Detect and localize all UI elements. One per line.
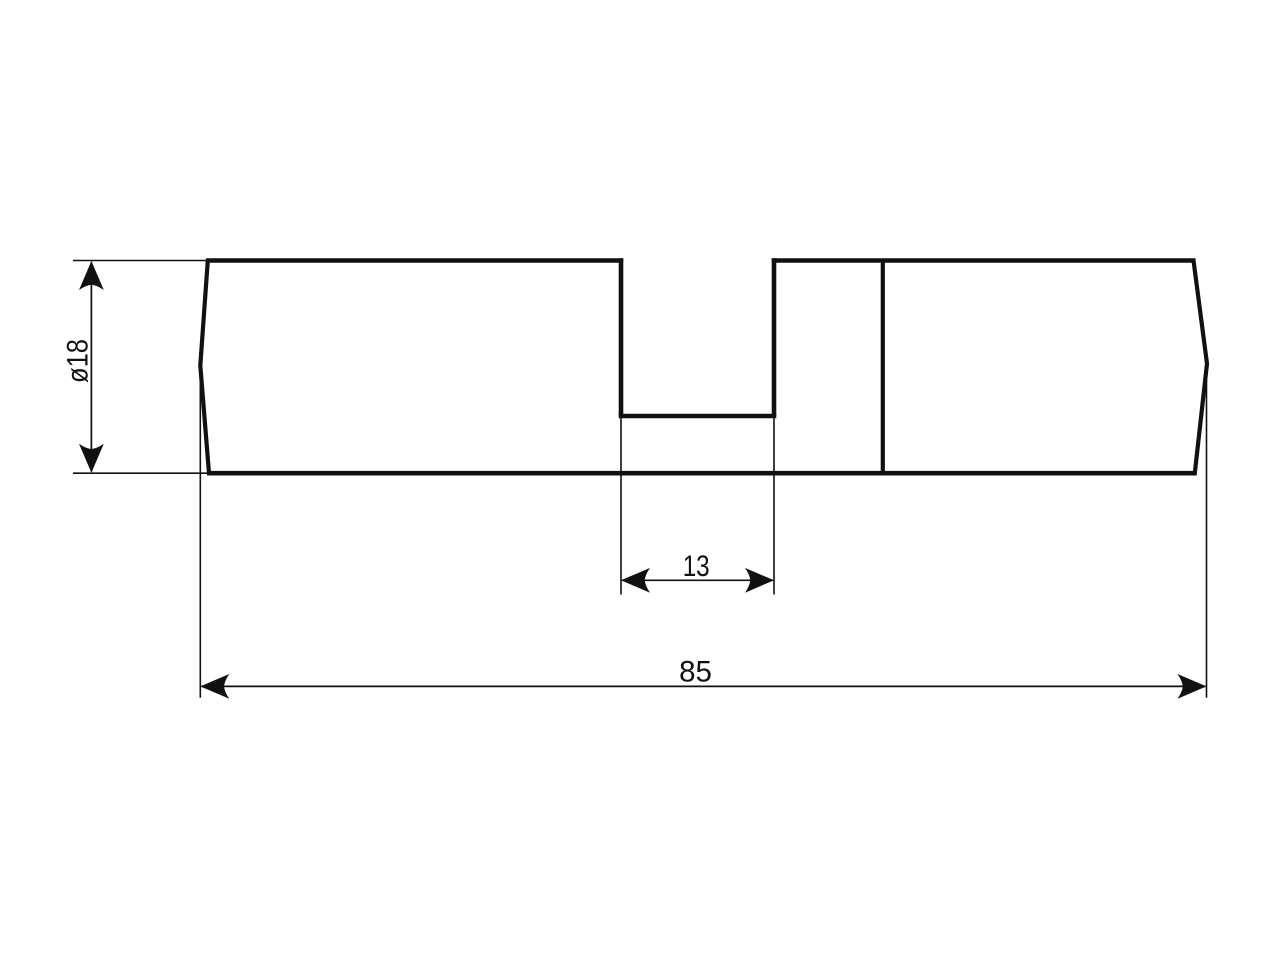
dim85 left extension line [199,366,201,698]
body bottom edge [207,471,1197,476]
part divider line [881,261,885,474]
dim13 left extension line [620,416,622,595]
body top edge right segment [772,258,1196,263]
dia18 bottom extension line [73,472,207,474]
dim85 left arrowhead [200,674,229,699]
dia18 bottom arrowhead [79,444,104,473]
dim85 dimension line [201,685,1205,687]
dim85 right arrowhead [1178,674,1207,699]
dim13 dimension line [622,579,773,581]
dim13 right arrowhead [745,568,774,593]
notch left wall [619,258,624,416]
dim13 right extension line [773,416,775,595]
notch bottom [619,414,777,419]
dia18 top extension line [73,260,208,262]
svg-text:85: 85 [679,656,712,689]
svg-text:13: 13 [683,550,710,583]
notch right wall [772,258,777,416]
dim13 left arrowhead [621,568,650,593]
dia18 top arrowhead [79,261,104,290]
dim85 right extension line [1206,364,1208,698]
dia18 dimension line [90,262,92,472]
body top edge left segment [206,258,623,263]
body left end chamfer [200,261,209,474]
svg-text:ø18: ø18 [62,339,95,383]
body right end chamfer [1194,261,1208,474]
